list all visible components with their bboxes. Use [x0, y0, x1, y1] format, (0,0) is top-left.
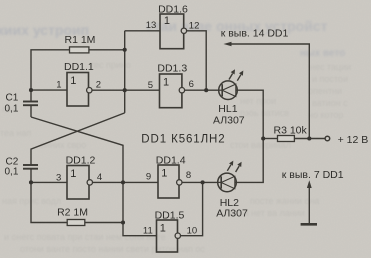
arrowhead to pin 14 DD1	[224, 42, 232, 47]
wire C2 bottom stub	[30, 169, 32, 183]
wire node B vertical	[124, 31, 126, 113]
inverter DD1.3	[160, 74, 185, 108]
arrowhead to pin 7 DD1	[307, 180, 312, 188]
common bar of pin 7 stub	[301, 223, 317, 226]
junction R3 right	[307, 136, 311, 140]
junction R1 right	[123, 48, 127, 52]
junction R2 right	[121, 220, 125, 224]
inverter DD1.5	[157, 220, 181, 252]
wire C1 bottom stub	[30, 106, 32, 117]
wire node D down to DD1.5 pin 11	[123, 182, 157, 235]
wire R3 left	[263, 138, 277, 140]
junction node A	[29, 88, 33, 92]
inverter DD1.1	[67, 73, 92, 107]
capacitor C1	[23, 102, 38, 106]
terminal +12V	[325, 136, 330, 141]
junction DD1.1 output	[123, 88, 127, 92]
resistor R2	[67, 220, 85, 226]
wire +12V branch to pin 14 arrow	[231, 44, 309, 139]
LED HL2	[218, 173, 237, 192]
wire R1 left to node A	[31, 50, 70, 90]
LED HL1	[219, 81, 238, 100]
wire DD1.3 output to HL1	[185, 89, 219, 91]
wire node C down to R2 left	[31, 182, 67, 222]
wire DD1.1 output to DD1.3 pin 5	[92, 89, 160, 91]
HL1 emission arrows	[229, 69, 243, 80]
wire node A to DD1.1 pin 1	[31, 89, 67, 91]
wire R2 right to node D	[85, 222, 123, 224]
junction node C	[29, 180, 33, 184]
wire node C to DD1.2 pin 3	[31, 181, 67, 183]
resistor R1	[70, 47, 89, 53]
capacitor C2	[23, 165, 38, 169]
wire diagonal node B to C2	[31, 113, 125, 165]
wire HL1 to R3 node	[237, 90, 263, 138]
wire HL2 to R3 node	[236, 139, 263, 183]
wire DD1.4 output to HL2	[182, 181, 218, 183]
resistor R3	[278, 136, 295, 142]
wire R3 right to +12V terminal	[294, 138, 325, 140]
inverter DD1.4	[158, 165, 182, 198]
wire C1 top stub	[30, 90, 32, 101]
wire to DD1.6 pin 13	[125, 30, 160, 32]
wire diagonal C1 to DD1.2 output	[31, 117, 123, 182]
HL2 emission arrows	[227, 161, 241, 172]
wire R1 right to node B	[89, 49, 125, 51]
inverter DD1.2	[67, 166, 93, 200]
junction DD1.2 output	[121, 180, 125, 184]
wire pin 7 stub	[308, 185, 310, 223]
inverter DD1.6	[160, 14, 187, 49]
junction DD1.3 output	[204, 88, 208, 92]
wire DD1.2 output to DD1.4 pin 9	[92, 181, 158, 183]
junction R3 left	[261, 136, 265, 140]
wire DD1.6 output down to HL1 node	[187, 31, 207, 90]
wire DD1.5 output up to HL2 node	[181, 182, 203, 235]
junction DD1.4 output	[201, 180, 205, 184]
faint bleed-through background texture	[0, 22, 89, 38]
